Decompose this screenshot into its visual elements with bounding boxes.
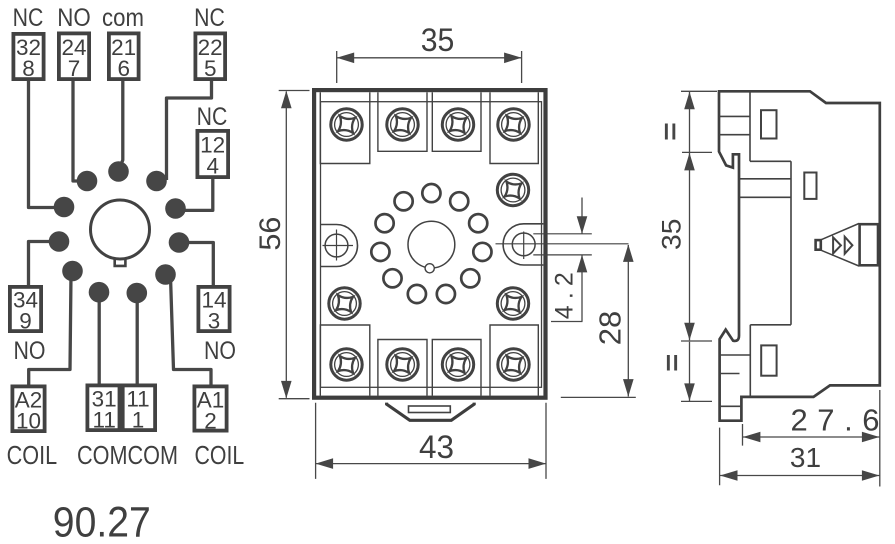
right mounting hole bbox=[496, 224, 629, 265]
dimension 35 (side) bbox=[657, 153, 713, 341]
center keyway bbox=[425, 264, 434, 273]
front view inner outline bbox=[321, 102, 542, 388]
svg-text:35: 35 bbox=[421, 22, 455, 58]
left mounting hole bbox=[321, 225, 358, 267]
wire pin 9 to box34/9 bbox=[29, 242, 64, 286]
dimension = (bottom) bbox=[667, 342, 712, 402]
dimension = (top) bbox=[665, 91, 717, 152]
svg-text:NO: NO bbox=[204, 337, 236, 365]
terminal cavity lines, top row bbox=[320, 92, 538, 163]
wire box12/4 to pin 4 bbox=[182, 179, 213, 210]
pin hole 10 bbox=[376, 214, 394, 232]
pin hole 7 bbox=[408, 285, 426, 303]
pin hole 9 bbox=[371, 243, 389, 261]
dimension 56 (left) bbox=[254, 91, 310, 399]
terminal box A1/2 bbox=[194, 386, 226, 433]
dimension 4.2 (right slot) bbox=[551, 198, 588, 322]
terminal screw 4 bbox=[498, 109, 529, 140]
terminal screw 11 bbox=[387, 349, 418, 380]
svg-text:4: 4 bbox=[206, 154, 219, 179]
svg-text:com: com bbox=[102, 4, 144, 32]
wire pin 10 to boxA2/10 bbox=[29, 274, 71, 385]
wire box32/8 to pin 8 bbox=[29, 81, 63, 208]
terminal screw 2 bbox=[387, 109, 418, 140]
keyway notch bbox=[115, 258, 126, 266]
svg-text:6: 6 bbox=[117, 56, 130, 81]
wire pin 3 to box14/3 bbox=[183, 243, 213, 286]
terminal box 24/7 bbox=[59, 33, 89, 81]
terminal box 34/9 bbox=[10, 287, 41, 334]
svg-text:8: 8 bbox=[22, 56, 35, 81]
retaining clip block bbox=[860, 224, 878, 265]
pin 5 dot bbox=[146, 171, 167, 192]
DIN foot slot bbox=[409, 406, 451, 413]
svg-text:7: 7 bbox=[68, 56, 81, 81]
pin 2 dot bbox=[155, 264, 176, 285]
pin hole 2 bbox=[450, 192, 468, 210]
wire pin 1 to box11/1 bbox=[136, 295, 139, 384]
svg-text:31: 31 bbox=[790, 442, 821, 473]
side cavity window 3 bbox=[761, 345, 776, 375]
svg-text:1: 1 bbox=[132, 408, 145, 433]
svg-text:NO: NO bbox=[14, 337, 46, 365]
svg-text:5: 5 bbox=[204, 56, 217, 81]
svg-text:NO: NO bbox=[57, 4, 91, 32]
svg-text:90.27: 90.27 bbox=[53, 499, 151, 544]
wire pin 11 to box31/11 bbox=[98, 295, 101, 384]
wire box22/5 to pin 5 bbox=[167, 81, 212, 180]
pin hole 11 bbox=[395, 192, 413, 210]
svg-text:NC: NC bbox=[197, 103, 228, 131]
terminal box 14/3 bbox=[198, 287, 229, 334]
svg-text:9: 9 bbox=[19, 309, 32, 334]
svg-text:56: 56 bbox=[254, 217, 287, 251]
terminal screw 9 bbox=[329, 288, 360, 319]
pin 4 dot bbox=[165, 198, 186, 219]
pin 11 dot bbox=[89, 282, 110, 303]
terminal screw 7 bbox=[442, 349, 473, 380]
pin hole 1 bbox=[422, 184, 440, 202]
pin 10 dot bbox=[62, 261, 83, 282]
terminal box A2/10 bbox=[12, 386, 44, 433]
terminal box 22/5 bbox=[195, 33, 225, 81]
pin hole 5 bbox=[461, 269, 479, 287]
pin 7 dot bbox=[77, 171, 98, 192]
svg-text:COIL: COIL bbox=[195, 440, 245, 470]
svg-text:43: 43 bbox=[419, 429, 454, 465]
pin 3 dot bbox=[169, 232, 190, 253]
retaining clip stud bbox=[816, 240, 821, 250]
svg-text:COIL: COIL bbox=[7, 440, 58, 470]
svg-text:2: 2 bbox=[204, 409, 217, 434]
terminal cavity lines, bottom row bbox=[320, 325, 538, 396]
COM boxes shared wall bbox=[118, 384, 125, 433]
pin 8 dot bbox=[54, 197, 75, 218]
side view internal lines bbox=[719, 91, 791, 406]
svg-text:NC: NC bbox=[194, 4, 225, 32]
pin 6 dot bbox=[108, 161, 129, 182]
dimension 43 (bottom) bbox=[316, 403, 546, 479]
terminal box 31/11 bbox=[87, 385, 121, 432]
side cavity window 1 bbox=[761, 110, 777, 138]
pin hole 4 bbox=[473, 243, 491, 261]
dimension 27.6 bbox=[743, 390, 880, 487]
socket outline circle bbox=[91, 200, 150, 259]
wire box21/6 to pin 6 bbox=[119, 81, 123, 169]
terminal box 32/8 bbox=[13, 34, 43, 81]
svg-text:10: 10 bbox=[16, 409, 41, 434]
clip arrow 1 bbox=[833, 237, 841, 253]
dimension 28 (right) bbox=[561, 244, 636, 397]
pin 1 dot bbox=[127, 283, 148, 304]
terminal screw 8 bbox=[498, 349, 529, 380]
terminal screw 6 bbox=[497, 288, 528, 319]
pin hole 3 bbox=[469, 214, 487, 232]
terminal screw 1 bbox=[331, 109, 362, 140]
terminal screw 10 bbox=[331, 349, 362, 380]
svg-text:NC: NC bbox=[13, 4, 44, 32]
wire pin 2 to boxA1/2 bbox=[171, 277, 212, 385]
wire box24/7 to pin 7 bbox=[73, 81, 86, 181]
terminal box 11/1 bbox=[121, 385, 155, 432]
svg-text:3: 3 bbox=[208, 309, 221, 334]
clip arrow 2 bbox=[845, 237, 853, 254]
dimension 31 bbox=[720, 428, 880, 486]
side cavity window 2 bbox=[804, 173, 816, 199]
terminal screw 3 bbox=[442, 109, 473, 140]
terminal box 12/4 bbox=[197, 131, 228, 179]
pin hole 6 bbox=[437, 285, 455, 303]
terminal screw 5 bbox=[497, 174, 528, 205]
svg-text:4.2: 4.2 bbox=[551, 272, 579, 319]
svg-text:35: 35 bbox=[657, 219, 687, 250]
svg-text:11: 11 bbox=[93, 408, 116, 433]
center hole bbox=[408, 221, 455, 268]
side view outline bbox=[719, 91, 880, 420]
pin hole 8 bbox=[383, 269, 401, 287]
retaining clip funnel bbox=[822, 224, 859, 267]
svg-text:28: 28 bbox=[593, 311, 628, 345]
front view body outline bbox=[314, 90, 545, 398]
svg-text:COMCOM: COMCOM bbox=[77, 440, 178, 470]
terminal box 21/6 bbox=[109, 33, 139, 81]
DIN rail foot bbox=[387, 403, 475, 421]
dimension 35 (top) bbox=[337, 22, 522, 83]
pin 9 dot bbox=[49, 231, 70, 252]
